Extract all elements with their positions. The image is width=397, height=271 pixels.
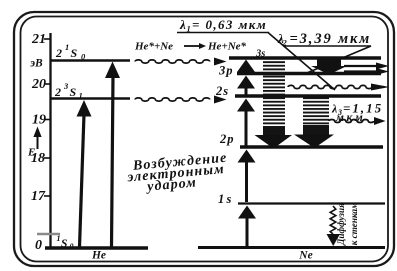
svg-text:=3,39 мкм: =3,39 мкм bbox=[290, 31, 372, 47]
svg-text:2p: 2p bbox=[219, 132, 235, 146]
svg-text:2s: 2s bbox=[215, 84, 229, 98]
svg-text:2: 2 bbox=[55, 46, 62, 60]
svg-text:S: S bbox=[70, 85, 77, 99]
svg-text:0: 0 bbox=[70, 242, 74, 251]
svg-text:S: S bbox=[61, 238, 67, 250]
svg-text:= 0,63 мкм: = 0,63 мкм bbox=[192, 17, 267, 32]
svg-text:He+Ne*: He+Ne* bbox=[207, 41, 247, 53]
svg-text:1s: 1s bbox=[218, 192, 234, 206]
svg-text:к стенкам: к стенкам bbox=[349, 203, 359, 246]
svg-text:Диффузия: Диффузия bbox=[336, 203, 346, 246]
svg-text:19: 19 bbox=[32, 113, 46, 128]
svg-text:2: 2 bbox=[54, 85, 61, 99]
svg-text:3: 3 bbox=[63, 81, 69, 91]
svg-text:эВ: эВ bbox=[29, 58, 43, 70]
svg-text:3p: 3p bbox=[218, 64, 234, 78]
svg-text:17: 17 bbox=[31, 189, 46, 204]
svg-text:λ: λ bbox=[179, 17, 186, 32]
svg-text:1: 1 bbox=[79, 91, 83, 101]
svg-text:21: 21 bbox=[31, 32, 46, 47]
svg-text:1: 1 bbox=[57, 234, 61, 243]
svg-text:1: 1 bbox=[65, 42, 69, 52]
svg-text:He*+Ne: He*+Ne bbox=[134, 41, 173, 53]
svg-text:20: 20 bbox=[31, 77, 46, 92]
svg-text:He: He bbox=[91, 250, 106, 262]
svg-text:0: 0 bbox=[35, 238, 42, 253]
svg-text:3s: 3s bbox=[255, 49, 265, 60]
svg-text:Ne: Ne bbox=[298, 250, 312, 262]
svg-text:Е: Е bbox=[27, 147, 35, 159]
svg-text:S: S bbox=[71, 46, 78, 60]
